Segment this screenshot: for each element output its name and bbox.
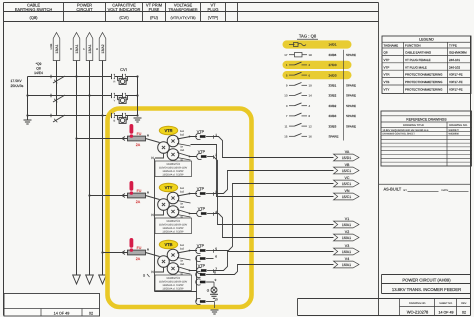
svg-text:15/25VA cl. 0.2/3P: 15/25VA cl. 0.2/3P <box>162 174 183 177</box>
svg-text:33/B1: 33/B1 <box>329 84 337 88</box>
svg-text:110V/3-110V,110V/3-110V: 110V/3-110V,110V/3-110V <box>159 281 188 284</box>
svg-text:FUNCTION: FUNCTION <box>405 43 421 47</box>
wire plug10 down <box>214 302 216 309</box>
svg-text:BY: BY <box>404 189 408 192</box>
header col: cable earthing switch (Q8) <box>15 3 53 20</box>
node secondary out 2 VTY <box>189 213 191 215</box>
tag Q8 contact 17-18 33/B6 <box>284 53 312 57</box>
earth below enclosure <box>211 310 219 314</box>
link wire vertical <box>56 61 58 116</box>
wire secondary1 to plug VTR <box>177 137 197 140</box>
VT compartment yellow enclosure <box>108 109 252 308</box>
VT plug female/male 7 <box>197 264 217 273</box>
svg-text:15: 15 <box>284 135 288 139</box>
wire V4 run <box>214 265 334 275</box>
svg-text:2A: 2A <box>136 143 141 147</box>
legend row Q8 CABLE EARTHING <box>384 51 468 55</box>
wire phase tap to fuse VTY <box>90 195 128 197</box>
legend table <box>382 36 471 94</box>
svg-text:25KA/3s: 25KA/3s <box>11 84 24 88</box>
svg-text:15/C1: 15/C1 <box>342 169 351 173</box>
reference row 2 <box>383 133 460 136</box>
phase R vertical wire <box>76 61 78 276</box>
VT plug female/male 3 <box>196 187 217 197</box>
bus reference arrow 13/A1 (R) <box>69 33 80 61</box>
svg-text:VTY: VTY <box>165 185 173 190</box>
voltage transformer VTR windings <box>158 135 179 160</box>
highlight bar row 27/D3 <box>283 61 352 69</box>
svg-text:15/25VA cl. 0.2/3P: 15/25VA cl. 0.2/3P <box>162 288 183 291</box>
svg-text:(VTP): (VTP) <box>208 15 219 20</box>
node B <box>101 114 103 116</box>
svg-text:VT PLUG FEMALE: VT PLUG FEMALE <box>405 58 431 62</box>
svg-text:VTR: VTR <box>384 73 391 77</box>
svg-text:Q8: Q8 <box>384 51 388 55</box>
wire V2 run <box>214 214 334 238</box>
legend row VTP VT PLUG FEMALE <box>384 58 461 62</box>
svg-text:2A: 2A <box>136 257 141 261</box>
wire primary to neutral bus VTR <box>155 153 164 158</box>
svg-text:FUSE: FUSE <box>149 7 160 12</box>
svg-text:246-102: 246-102 <box>449 65 460 69</box>
header col: voltage transformer <box>168 3 198 20</box>
wire fuse to VT primary VTR <box>146 139 160 143</box>
svg-text:Y: Y <box>114 100 116 103</box>
svg-text:PROTECTION&METERING: PROTECTION&METERING <box>405 88 443 92</box>
svg-text:16: 16 <box>309 135 313 139</box>
node secondary out 2 VTB <box>189 270 191 272</box>
winding terminal labels VTB <box>180 244 185 276</box>
svg-text:LEGEND: LEGEND <box>419 38 434 42</box>
svg-text:02: 02 <box>462 310 466 314</box>
svg-text:PROTECTION&METERING: PROTECTION&METERING <box>405 80 443 84</box>
title block <box>382 275 471 294</box>
output arrow VB 15/C1 <box>334 163 360 174</box>
svg-text:2a1: 2a1 <box>180 149 185 152</box>
wire secondary1 to plug VTB <box>177 251 197 254</box>
drawing number strip <box>298 299 471 316</box>
phase row Y horizontal wire <box>28 95 138 97</box>
tag Q8 contact 11-12 33/B3 <box>284 123 312 128</box>
switch label *Q9 Q8 14/E4 <box>34 62 43 75</box>
svg-text:14: 14 <box>309 94 313 98</box>
CVI capacitor+lamp phase B <box>112 113 128 124</box>
wire plug9 to earth indicator <box>213 282 215 287</box>
phase B vertical wire <box>102 61 104 276</box>
svg-text:VTB: VTB <box>165 242 173 247</box>
CVI earth <box>134 118 142 122</box>
svg-text:15/D1: 15/D1 <box>342 156 351 160</box>
VT plug female/male 1 <box>196 130 217 140</box>
svg-text:(FU): (FU) <box>150 15 159 20</box>
svg-text:16/A1: 16/A1 <box>342 223 351 227</box>
highlight bar row 14/D1 <box>283 40 352 48</box>
phase row B horizontal wire <box>28 115 138 117</box>
earthing switch Q8 pole 3 blade <box>51 114 65 123</box>
phase Y vertical wire <box>89 61 91 276</box>
svg-text:DATE: DATE <box>442 189 449 192</box>
svg-text:SPARE: SPARE <box>346 53 356 57</box>
wire secondary1 n stub VTR <box>177 144 191 147</box>
svg-text:27/D3: 27/D3 <box>329 63 337 67</box>
svg-text:SPARE: SPARE <box>346 104 356 108</box>
svg-text:15/25VA cl. 0.2/3P: 15/25VA cl. 0.2/3P <box>162 284 183 287</box>
svg-text:13.8KV/√3: 13.8KV/√3 <box>166 276 180 280</box>
wire phase tap to fuse VTB <box>103 252 128 254</box>
svg-text:33/B3: 33/B3 <box>329 114 337 118</box>
node R <box>75 75 77 77</box>
VT plug 10 <box>196 297 218 304</box>
svg-text:V2: V2 <box>345 230 349 234</box>
svg-text:B: B <box>95 48 99 50</box>
winding terminal labels VTY <box>180 187 185 219</box>
svg-text:13.8KV/√3: 13.8KV/√3 <box>166 219 180 223</box>
svg-text:V4: V4 <box>345 257 349 261</box>
svg-text:V3: V3 <box>345 244 349 248</box>
svg-text:13.8KV REQUIRING AND METERING: 13.8KV REQUIRING AND METERING ELE <box>383 129 430 132</box>
svg-text:EARTHING SWITCH: EARTHING SWITCH <box>15 7 53 12</box>
legend row VTR PROTECTION&METERING <box>384 73 463 77</box>
output arrow V3 16/A1 <box>334 244 360 255</box>
svg-text:TAGNAME: TAGNAME <box>384 43 399 47</box>
svg-text:TYPE: TYPE <box>449 43 457 47</box>
output arrow V1 16/A1 <box>334 217 360 228</box>
earthing bus vertical <box>27 77 29 120</box>
svg-text:TRANSFORMER: TRANSFORMER <box>168 8 198 12</box>
wire secondary2 n stub VTR <box>177 158 191 161</box>
TAG Q8 title <box>297 34 318 40</box>
svg-text:W920890: W920890 <box>449 133 460 136</box>
node Y <box>88 94 90 96</box>
svg-text:15/C1: 15/C1 <box>342 182 351 186</box>
svg-text:11: 11 <box>284 124 287 128</box>
svg-text:2A: 2A <box>136 200 141 204</box>
fuse FU VTY 2A <box>128 181 146 204</box>
svg-text:VTP: VTP <box>384 58 390 62</box>
bus reference arrow 13/A1 (LINK) <box>50 33 60 61</box>
wire VC run <box>214 184 334 251</box>
wire V1 run <box>214 157 334 225</box>
bus reference arrow 13/A2 (B) <box>95 33 106 61</box>
output arrow VC 15/C1 <box>334 176 360 187</box>
as-built section <box>379 184 471 192</box>
svg-text:13/A2: 13/A2 <box>101 44 105 53</box>
svg-text:1a2: 1a2 <box>180 190 185 193</box>
wire secondary2 to plug VTY <box>177 210 197 214</box>
svg-text:33/B2: 33/B2 <box>329 94 337 98</box>
VT plug female/male 4 <box>197 207 217 217</box>
wire secondary2 n stub VTB <box>177 272 191 275</box>
spec text box VTY <box>155 218 192 234</box>
disconnect contact VTY <box>122 194 125 198</box>
feeder outgoing arrow phase B <box>99 275 107 284</box>
svg-text:CIRCUIT: CIRCUIT <box>76 7 93 12</box>
earth fault indicator G <box>207 287 217 293</box>
svg-text:10: 10 <box>309 84 313 88</box>
node secondary out 2 VTR <box>189 156 191 158</box>
svg-text:110V/3-110V,110V/3-110V: 110V/3-110V,110V/3-110V <box>159 167 188 170</box>
wire VA run <box>214 137 334 158</box>
svg-text:16/A1: 16/A1 <box>342 236 351 240</box>
header col: VT plug (VTP) <box>208 3 219 20</box>
tag Q8 contact 7-8 33/B3 <box>286 113 311 118</box>
label G at VTB primary earth <box>143 274 150 278</box>
rating label 17.5KV 25KA/3s <box>11 79 24 88</box>
svg-text:14/D1: 14/D1 <box>329 43 337 47</box>
svg-text:16/A1: 16/A1 <box>342 250 351 254</box>
svg-text:REV.: REV. <box>461 302 467 305</box>
svg-text:13: 13 <box>284 94 288 98</box>
svg-text:CABLE EARTHING: CABLE EARTHING <box>405 51 432 55</box>
legend row TAGNAME FUNCTION <box>384 43 457 47</box>
svg-text:DRAWING TITLE: DRAWING TITLE <box>403 124 424 127</box>
tag Q8 contact 9-10 33/B1 <box>286 83 312 88</box>
label VTR ellipse <box>159 126 177 135</box>
svg-text:15/25VA cl. 0.2/3P: 15/25VA cl. 0.2/3P <box>162 227 183 230</box>
svg-text:VA: VA <box>345 150 350 154</box>
wire secondary2 to plug VTB <box>177 267 197 271</box>
svg-text:VTP: VTP <box>384 65 390 69</box>
header col: power circuit <box>76 3 93 12</box>
svg-text:SPARE: SPARE <box>346 114 356 118</box>
wire neutral bus to G cluster <box>155 291 197 293</box>
svg-text:PROTECTION&METERING: PROTECTION&METERING <box>405 73 443 77</box>
svg-text:14/E4: 14/E4 <box>34 71 43 75</box>
wire primary to neutral bus VTB <box>155 267 164 272</box>
svg-text:17: 17 <box>284 53 288 57</box>
svg-text:13/A1: 13/A1 <box>75 44 79 53</box>
feeder outgoing arrow phase Y <box>86 275 94 284</box>
tag Q8 contact 15-16 SPARE <box>284 134 312 139</box>
node secondary out 1 VTB <box>189 250 191 252</box>
disconnect contact VTB <box>122 251 125 255</box>
svg-text:V3F17-FE: V3F17-FE <box>449 80 463 84</box>
header col: VT prim fuse (FU) <box>146 3 162 20</box>
spec text box VTR <box>155 161 192 177</box>
wire secondary1 n stub VTB <box>177 258 191 261</box>
svg-text:FU: FU <box>137 189 142 193</box>
svg-text:DRAWING NO.: DRAWING NO. <box>409 302 426 305</box>
node phase tap VTY <box>88 194 90 196</box>
svg-text:CVI: CVI <box>120 67 127 72</box>
svg-text:10: 10 <box>214 297 218 301</box>
node bus-phase2 <box>26 94 28 96</box>
svg-text:V3F17-FE: V3F17-FE <box>449 73 463 77</box>
tag list divider <box>343 50 345 141</box>
svg-text:33/B2: 33/B2 <box>329 104 337 108</box>
ground of earthing bus <box>24 120 32 124</box>
svg-text:13.8KV/√3: 13.8KV/√3 <box>166 162 180 166</box>
neutral bus wire <box>154 159 156 292</box>
svg-text:33/B3: 33/B3 <box>329 124 337 128</box>
svg-text:24/D3: 24/D3 <box>329 73 337 77</box>
svg-text:13/A1: 13/A1 <box>55 44 59 53</box>
winding terminal labels VTR <box>180 130 185 162</box>
wire VB run <box>214 171 334 194</box>
svg-text:14 OF 49: 14 OF 49 <box>54 311 70 315</box>
svg-text:V3F17-FE: V3F17-FE <box>449 88 463 92</box>
phase row R horizontal wire <box>28 76 138 78</box>
svg-text:AS-BUILT: AS-BUILT <box>384 187 402 192</box>
header table lines <box>4 3 379 22</box>
wire primary to neutral bus VTY <box>155 210 164 215</box>
svg-text:PLUG: PLUG <box>208 7 219 12</box>
svg-text:2a1: 2a1 <box>180 206 185 209</box>
svg-text:15/25VA cl. 0.2/3P: 15/25VA cl. 0.2/3P <box>162 231 183 234</box>
output arrow V4 16/A1 <box>334 257 360 268</box>
output arrow V2 16/A1 <box>334 230 360 241</box>
divider between schematic and legend column <box>378 3 380 316</box>
svg-text:14 OF 49: 14 OF 49 <box>439 310 454 314</box>
wire V3 run <box>214 252 334 271</box>
wire secondary2 n stub VTY <box>177 215 191 218</box>
VT plug female/male 2 <box>197 150 217 160</box>
node CVI-Y <box>136 94 138 96</box>
svg-text:V1: V1 <box>345 217 349 221</box>
bottom-left revision box <box>4 294 100 317</box>
disconnect contact VTR <box>122 137 125 141</box>
svg-text:B: B <box>114 120 116 123</box>
fuse FU VTR 2A <box>128 124 146 147</box>
earth below indicator <box>210 294 218 298</box>
earthing switch Q8 pole 2 blade <box>51 94 65 103</box>
svg-text:POWER CIRCUIT (AH09): POWER CIRCUIT (AH09) <box>402 278 451 283</box>
svg-text:(Q8): (Q8) <box>30 15 39 20</box>
svg-text:16/A1: 16/A1 <box>342 263 351 267</box>
svg-text:SPARE: SPARE <box>346 84 356 88</box>
wire fuse to VT primary VTB <box>146 253 160 257</box>
svg-text:GEH/MK08M: GEH/MK08M <box>449 51 467 55</box>
node phase tap VTB <box>101 251 103 253</box>
wire phase tap to fuse VTR <box>77 138 128 140</box>
svg-text:REFERENCE DRAWINGS: REFERENCE DRAWINGS <box>406 117 447 121</box>
svg-text:33/B6: 33/B6 <box>329 53 337 57</box>
wire fuse to VT primary VTY <box>146 196 160 200</box>
tag Q8 contact 3-4 33/B2 <box>286 103 311 108</box>
svg-text:VT PLUG MALE: VT PLUG MALE <box>405 65 427 69</box>
tag Q8 contact 13-14 33/B2 <box>284 93 312 98</box>
svg-text:VB: VB <box>345 163 350 167</box>
svg-text:VOLT INDICATOR: VOLT INDICATOR <box>108 7 141 12</box>
svg-text:(CVI): (CVI) <box>119 15 129 20</box>
svg-text:SPARE: SPARE <box>329 135 339 139</box>
svg-text:110V/3-110V,110V/3-110V: 110V/3-110V,110V/3-110V <box>159 224 188 227</box>
svg-text:13.8KV TRANS. INCOMER FEEDE: 13.8KV TRANS. INCOMER FEEDER <box>392 287 461 292</box>
earthing switch Q8 pole 1 blade <box>51 75 65 84</box>
voltage transformer VTB windings <box>158 249 179 274</box>
feeder outgoing arrow phase R <box>73 275 81 284</box>
svg-text:W920872: W920872 <box>449 129 460 132</box>
svg-text:SPARE: SPARE <box>346 94 356 98</box>
VT plug 9 <box>196 278 217 285</box>
node secondary out 1 VTR <box>189 136 191 138</box>
svg-text:R: R <box>113 81 115 84</box>
svg-text:VTY: VTY <box>384 88 390 92</box>
fuse FU VTB 2A <box>128 238 146 261</box>
svg-text:Y: Y <box>82 48 86 50</box>
label VTB ellipse <box>159 240 177 249</box>
VT plug female/male 5 <box>196 244 217 254</box>
highlight bar row 24/D3 <box>283 71 352 79</box>
svg-text:15/25VA cl. 0.2/3P: 15/25VA cl. 0.2/3P <box>162 170 183 173</box>
voltage transformer VTY windings <box>158 192 179 217</box>
svg-text:2a1: 2a1 <box>180 263 185 266</box>
node secondary out 1 VTY <box>189 193 191 195</box>
tag Q8 contact 5-6 24/D3 <box>286 72 311 77</box>
svg-text:R: R <box>69 48 73 50</box>
svg-text:VTB: VTB <box>384 80 390 84</box>
label VTY ellipse <box>159 183 177 192</box>
legend row VTB PROTECTION&METERING <box>384 80 463 84</box>
legend row VTY PROTECTION&METERING <box>384 88 463 92</box>
svg-text:SHEET NO.: SHEET NO. <box>439 302 453 305</box>
CVI collector wire <box>137 77 139 116</box>
VT plug 8 <box>196 270 216 277</box>
svg-text:18: 18 <box>309 53 313 57</box>
node CVI-B <box>136 114 138 116</box>
wire secondary1 to plug VTY <box>177 194 197 197</box>
node CVI-R <box>136 75 138 77</box>
output arrow VN 15/C1 <box>334 189 360 200</box>
svg-text:02: 02 <box>89 311 93 315</box>
border frame left <box>3 3 5 316</box>
reference drawings table <box>381 111 472 166</box>
bus reference arrow 13/A1 (Y) <box>82 33 93 61</box>
node phase tap VTR <box>75 137 77 139</box>
svg-text:DRAWING CONTROL SHEET: DRAWING CONTROL SHEET <box>383 133 416 136</box>
tag Q8 contact 1-2 27/D3 <box>286 62 311 67</box>
G cluster bus <box>196 257 198 302</box>
reference row 1 <box>383 129 460 132</box>
svg-text:246-101: 246-101 <box>449 58 460 62</box>
svg-text:LINK: LINK <box>50 43 53 49</box>
spec text box VTB <box>155 275 192 291</box>
svg-text:TAG : Q8: TAG : Q8 <box>299 34 317 39</box>
wire secondary1 n stub VTY <box>177 201 191 204</box>
svg-text:12: 12 <box>309 124 313 128</box>
svg-text:FU: FU <box>137 132 142 136</box>
svg-text:17.5KV: 17.5KV <box>11 79 23 83</box>
svg-text:VC: VC <box>345 176 350 180</box>
svg-text:DRAWING NO.: DRAWING NO. <box>449 124 468 127</box>
header col: capacitive volt indicator (CVI) <box>108 3 141 20</box>
CVI capacitor+lamp phase Y <box>112 93 128 104</box>
wire VN run <box>191 145 334 197</box>
CVI capacitor+lamp phase R <box>112 74 128 85</box>
svg-text:FU: FU <box>137 246 142 250</box>
svg-text:15/C1: 15/C1 <box>342 195 351 199</box>
svg-text:Q8: Q8 <box>36 66 41 70</box>
node bus-phase3 <box>26 114 28 116</box>
svg-text:1a2: 1a2 <box>180 247 185 250</box>
svg-text:1a2: 1a2 <box>180 133 185 136</box>
svg-text:(VTR,VTY,VTB): (VTR,VTY,VTB) <box>170 16 195 20</box>
svg-text:VN: VN <box>345 189 350 193</box>
svg-text:SPARE: SPARE <box>346 124 356 128</box>
border frame right <box>470 36 472 316</box>
VT plug 6 <box>196 254 218 261</box>
svg-text:13/A1: 13/A1 <box>88 44 92 53</box>
svg-text:WO-210278: WO-210278 <box>407 309 429 314</box>
wire secondary2 to plug VTR <box>177 153 197 157</box>
svg-text:VTR: VTR <box>165 128 173 133</box>
legend row VTP VT PLUG MALE <box>384 65 461 69</box>
output arrow VA 15/D1 <box>334 150 360 161</box>
tag Q8 contact - 14/D1 <box>289 43 306 47</box>
